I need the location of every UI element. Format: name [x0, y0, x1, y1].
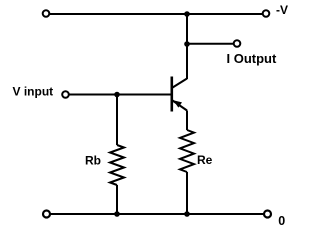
junction: Re / 0 rail	[184, 211, 190, 217]
wire: -V supply rail (top)	[50, 13, 262, 15]
resistor Rb	[110, 145, 124, 185]
svg-text:I Output: I Output	[227, 51, 277, 66]
wire: emitter to Re	[186, 111, 188, 131]
terminal top-left (-V rail)	[43, 10, 50, 17]
terminal bottom-left (0 rail)	[43, 211, 50, 218]
terminal I Output	[234, 40, 241, 47]
junction: I Output tap	[184, 41, 190, 47]
svg-text:0: 0	[278, 214, 285, 228]
wire: vertical collector feed	[186, 14, 188, 79]
junction: Rb / 0 rail	[114, 211, 120, 217]
Q1 emitter arrow (PNP, points toward base)	[173, 100, 182, 107]
Q1 base bar	[171, 77, 174, 112]
wire: 0V rail (bottom)	[51, 213, 264, 215]
svg-text:Rb: Rb	[85, 153, 101, 167]
svg-text:V input: V input	[13, 85, 54, 99]
junction: base wire / Rb tap	[114, 92, 120, 98]
terminal -V (top-right)	[263, 10, 270, 17]
svg-text:Re: Re	[197, 153, 213, 167]
wire: I Output branch	[187, 43, 233, 45]
junction: top rail / collector feed	[184, 11, 190, 17]
wire: base input	[70, 94, 172, 96]
wire: Rb top lead	[116, 95, 118, 146]
svg-text:-V: -V	[276, 3, 288, 17]
resistor Re	[180, 130, 194, 172]
terminal 0 (bottom-right)	[264, 211, 271, 218]
wire: Re bottom lead	[186, 172, 188, 214]
Q1 collector lead	[172, 79, 187, 89]
transistor Q1 (PNP)	[172, 77, 187, 112]
Q1 emitter lead	[172, 100, 187, 111]
wire: Rb bottom lead	[116, 185, 118, 214]
terminal V input	[62, 91, 69, 98]
